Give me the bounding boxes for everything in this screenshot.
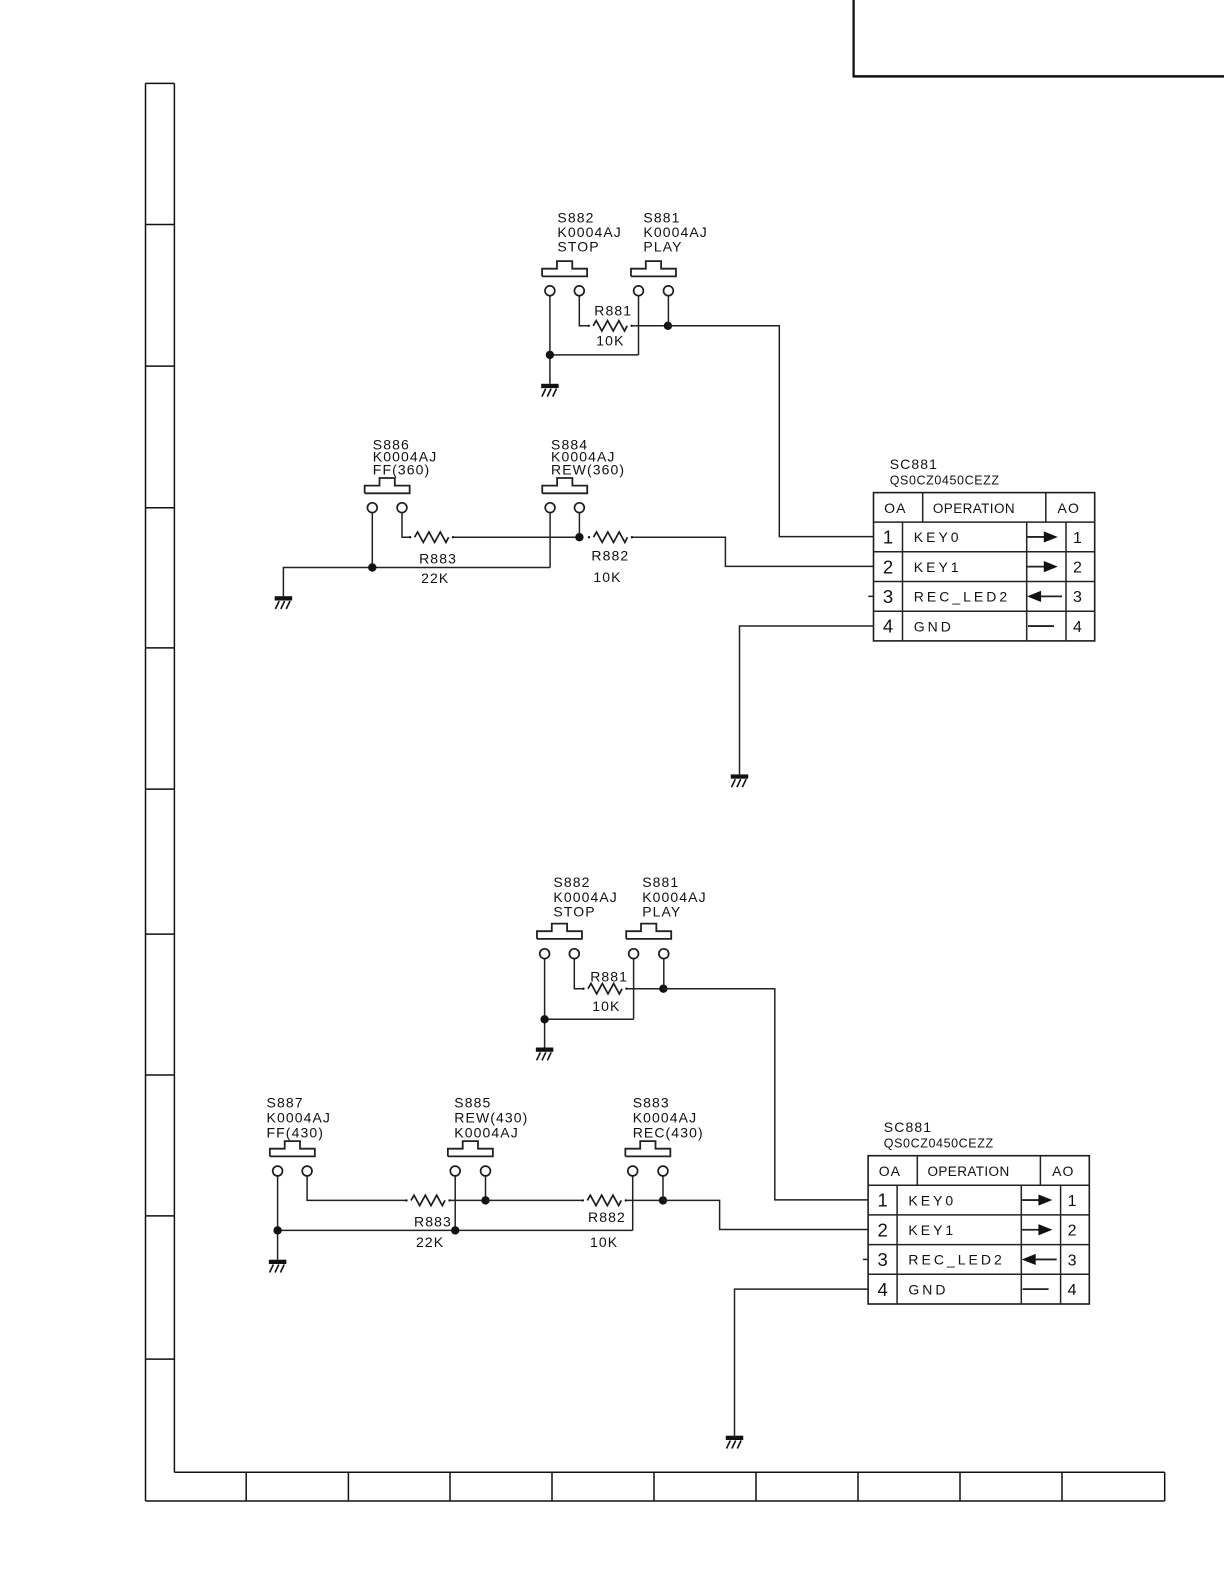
- resistor R881 10K: [588, 303, 633, 349]
- svg-text:S885: S885: [454, 1094, 491, 1110]
- svg-text:SC881: SC881: [884, 1119, 932, 1135]
- svg-text:1: 1: [1073, 530, 1082, 547]
- ground (below SC881 bottom): [726, 1436, 744, 1449]
- wire stub at SC881 pin 3 (REC_LED2): [868, 595, 873, 597]
- switch S886 terminal pins: [367, 503, 407, 513]
- connector SC881 (bottom) pin 2 row: KEY1: [877, 1219, 1076, 1240]
- resistor R882 10K (bottom): [582, 1195, 627, 1250]
- svg-text:K0004AJ: K0004AJ: [633, 1110, 698, 1126]
- page frame: bottom border right cap: [1164, 1472, 1166, 1501]
- connector SC881 (top) pin 2 row: KEY1: [883, 556, 1082, 577]
- svg-text:1: 1: [877, 1190, 887, 1211]
- page frame: left border tick marks: [146, 225, 175, 1360]
- svg-text:S882: S882: [553, 874, 590, 890]
- svg-text:REW(430): REW(430): [454, 1110, 528, 1126]
- svg-text:OPERATION: OPERATION: [928, 1164, 1010, 1179]
- svg-text:REW(360): REW(360): [551, 461, 625, 477]
- ground (below bottom S882): [536, 1048, 554, 1061]
- svg-text:STOP: STOP: [557, 239, 599, 255]
- svg-text:2: 2: [883, 556, 893, 577]
- page frame: bottom border tick marks: [246, 1472, 1062, 1501]
- wire: node D to R882 (bottom): [486, 1199, 583, 1201]
- wire: S882 left pin down to ground node: [549, 296, 551, 384]
- svg-text:GND: GND: [914, 618, 954, 634]
- svg-text:R883: R883: [419, 550, 457, 566]
- connector SC881 (bottom) pin 3 row: REC_LED2: [877, 1249, 1076, 1270]
- switch S886 label (S886 / K0004AJ / FF(360)): [373, 436, 438, 477]
- svg-text:2: 2: [1073, 559, 1082, 576]
- pushbutton switch S887 symbol: [270, 1141, 315, 1156]
- junction: S882 left / ground rail: [546, 351, 554, 359]
- svg-text:S881: S881: [642, 874, 679, 890]
- svg-text:10K: 10K: [592, 998, 620, 1014]
- junction node B: S884 right pin / R882 input: [575, 533, 583, 541]
- svg-text:2: 2: [1068, 1223, 1077, 1240]
- switch S883 label (S883 / K0004AJ / REC(430)): [633, 1094, 704, 1140]
- wire KEY1 net: R882 out to connector SC881 pin 2: [632, 537, 874, 566]
- wire: bottom common rail: [545, 1018, 634, 1020]
- resistor R882 10K: [588, 532, 633, 585]
- svg-text:4: 4: [877, 1279, 887, 1300]
- resistor R881 10K (bottom): [582, 969, 628, 1015]
- wire: S881 left pin down to common rail: [638, 296, 640, 355]
- wire: R883 to node B (S884 right pin): [453, 536, 579, 538]
- wire KEY0 net: node C to connector SC881 pin 1 (bottom): [663, 989, 868, 1200]
- connector SC881 (bottom) grid lines: [868, 1156, 1089, 1304]
- svg-text:QS0CZ0450CEZZ: QS0CZ0450CEZZ: [890, 474, 1000, 488]
- switch S881 label bottom (S881 / K0004AJ / PLAY): [642, 874, 707, 920]
- svg-text:REC(430): REC(430): [633, 1125, 704, 1141]
- connector SC881 (bottom) pin 1 row: KEY0: [877, 1190, 1076, 1211]
- resistor R883 22K: [409, 532, 457, 586]
- svg-text:R881: R881: [590, 969, 628, 985]
- svg-text:FF(360): FF(360): [373, 461, 431, 477]
- switch S884 terminal pins: [545, 503, 584, 513]
- svg-text:3: 3: [883, 586, 893, 607]
- ground (below SC881 top): [731, 774, 749, 787]
- svg-text:REC_LED2: REC_LED2: [914, 589, 1010, 605]
- switch S881 terminal pins: [634, 286, 674, 296]
- pushbutton switch S882 symbol (bottom): [537, 924, 582, 939]
- switch S882 terminal pins: [545, 286, 584, 296]
- svg-text:KEY1: KEY1: [908, 1222, 956, 1238]
- junction node C: bottom S881 right pin / KEY0 net: [659, 985, 667, 993]
- wire: bottom lower rail: [278, 1229, 633, 1231]
- svg-text:S887: S887: [267, 1094, 304, 1110]
- page frame: left border column inner line: [173, 83, 175, 1472]
- svg-text:4: 4: [1068, 1282, 1077, 1299]
- svg-text:2: 2: [877, 1219, 887, 1240]
- pushbutton switch S882 symbol: [542, 261, 587, 276]
- svg-text:10K: 10K: [596, 333, 624, 349]
- wire: lower rail to ground (left): [283, 568, 550, 597]
- svg-text:GND: GND: [908, 1281, 948, 1297]
- wire GND net: bottom SC881 pin 4 to ground: [735, 1289, 869, 1436]
- switch S884 label (S884 / K0004AJ / REW(360)): [551, 436, 625, 477]
- junction: S885 left pin on lower rail: [451, 1226, 459, 1234]
- junction node D: S885 right pin / R882 input (bottom): [481, 1196, 489, 1204]
- svg-text:1: 1: [1068, 1193, 1077, 1210]
- wire: R881 to node A (S881 right pin): [632, 325, 668, 327]
- svg-text:10K: 10K: [590, 1234, 618, 1250]
- pushbutton switch S881 symbol (bottom): [626, 924, 671, 939]
- switch S887 terminal pins: [273, 1166, 312, 1176]
- svg-text:K0004AJ: K0004AJ: [643, 224, 708, 240]
- svg-text:PLAY: PLAY: [643, 239, 682, 255]
- switch S881 terminal pins (bottom): [629, 949, 669, 959]
- wire: R883 out to node D (S885 right pin): [450, 1199, 486, 1201]
- switch S882 label (S882 / K0004AJ / STOP): [557, 210, 622, 255]
- connector SC881 (top) outline: [874, 493, 1095, 641]
- resistor R883 22K (bottom): [405, 1195, 452, 1250]
- pushbutton switch S886 symbol: [365, 478, 410, 493]
- svg-text:22K: 22K: [416, 1234, 444, 1250]
- wire: S884 right pin stub: [578, 513, 580, 538]
- page frame: left border column outer line: [145, 83, 147, 1501]
- wire: S886 right pin down to R883: [402, 513, 410, 538]
- wire: S887 left pin down to lower rail and ground: [277, 1176, 279, 1260]
- junction node E: S883 right pin / KEY1 net (bottom): [659, 1196, 667, 1204]
- svg-text:K0004AJ: K0004AJ: [267, 1110, 332, 1126]
- svg-text:R882: R882: [591, 548, 629, 564]
- wire: S883 right pin stub: [662, 1176, 664, 1201]
- svg-text:OA: OA: [884, 500, 906, 516]
- connector SC881 (top) pin 3 row: REC_LED2: [883, 586, 1082, 607]
- svg-text:KEY0: KEY0: [908, 1192, 956, 1208]
- pushbutton switch S884 symbol: [542, 478, 587, 493]
- wire stub at SC881 pin 3 (REC_LED2) bottom: [863, 1258, 868, 1260]
- wire: S886 left pin down to lower rail: [371, 513, 373, 568]
- wire: bottom S882 right pin down to R881: [574, 959, 583, 989]
- wire: bottom S881 left pin down to common rail: [633, 959, 635, 1020]
- svg-text:KEY1: KEY1: [914, 559, 962, 575]
- wire: S884 left pin down to lower rail: [549, 513, 551, 568]
- title block box (top right corner): [853, 0, 1224, 76]
- connector SC881 (top) pin 1 row: KEY0: [883, 527, 1082, 548]
- connector SC881 (top) header text OA / OPERATION / AO: [884, 500, 1080, 516]
- junction: S886 left pin on lower rail: [368, 563, 376, 571]
- wire: bottom R881 to node C (S881 right pin): [627, 988, 664, 990]
- switch S885 terminal pins: [450, 1166, 490, 1176]
- wire: S887 right pin down to R883 (bottom): [307, 1176, 406, 1201]
- switch S887 label (S887 / K0004AJ / FF(430)): [267, 1094, 332, 1140]
- svg-text:22K: 22K: [421, 570, 449, 586]
- connector SC881 (bottom) outline: [868, 1156, 1089, 1304]
- svg-text:KEY0: KEY0: [914, 529, 962, 545]
- wire: S885 left pin down to lower rail: [454, 1176, 456, 1231]
- pushbutton switch S885 symbol: [448, 1141, 493, 1156]
- svg-text:R881: R881: [594, 303, 632, 319]
- ground (below S887): [269, 1260, 287, 1273]
- svg-text:3: 3: [1068, 1252, 1077, 1269]
- junction: S887 left pin on lower rail: [273, 1226, 281, 1234]
- wire: S885 right pin stub: [485, 1176, 487, 1201]
- svg-text:1: 1: [883, 527, 893, 548]
- switch S882 terminal pins (bottom): [540, 949, 580, 959]
- wire KEY0 net: node A to connector SC881 pin 1: [668, 326, 874, 537]
- svg-text:R882: R882: [588, 1209, 626, 1225]
- svg-text:SC881: SC881: [890, 456, 938, 472]
- wire GND net: SC881 pin 4 to ground: [740, 626, 874, 774]
- connector SC881 reference label (top): [890, 456, 1000, 488]
- svg-text:R883: R883: [414, 1214, 452, 1230]
- wire: R882 out to node E (S883 right pin): [626, 1199, 663, 1201]
- svg-text:PLAY: PLAY: [642, 904, 681, 920]
- svg-text:AO: AO: [1052, 1163, 1074, 1179]
- connector SC881 reference label (bottom): [884, 1119, 994, 1150]
- ground (below S882): [541, 384, 559, 397]
- junction: bottom S882 left / ground rail: [540, 1015, 548, 1023]
- wire: S882 right pin down to R881: [579, 296, 588, 326]
- wire: bottom S881 right pin stub: [663, 959, 665, 989]
- svg-text:STOP: STOP: [553, 904, 595, 920]
- svg-text:10K: 10K: [593, 569, 621, 585]
- connector SC881 (top) pin 4 row: GND: [883, 616, 1082, 637]
- connector SC881 (bottom) header text OA / OPERATION / AO: [879, 1163, 1075, 1179]
- svg-text:4: 4: [883, 616, 893, 637]
- page frame: left border top cap: [146, 82, 175, 84]
- switch S885 label (S885 / REW(430) / K0004AJ): [454, 1094, 528, 1140]
- page frame: bottom border outer line: [146, 1500, 1165, 1502]
- svg-text:4: 4: [1073, 619, 1082, 636]
- svg-text:REC_LED2: REC_LED2: [908, 1252, 1004, 1268]
- svg-text:OA: OA: [879, 1163, 901, 1179]
- svg-text:3: 3: [1073, 589, 1082, 606]
- svg-text:FF(430): FF(430): [267, 1125, 325, 1141]
- svg-text:OPERATION: OPERATION: [933, 501, 1015, 516]
- pushbutton switch S883 symbol: [625, 1141, 670, 1156]
- connector SC881 (top) grid lines: [874, 493, 1095, 641]
- wire: common rail S882 left to S881 left: [550, 354, 639, 356]
- connector SC881 (bottom) pin 4 row: GND: [877, 1279, 1076, 1300]
- ground (left of S886 rail): [275, 596, 293, 609]
- junction node A: S881 right pin / KEY0 net: [664, 322, 672, 330]
- svg-text:AO: AO: [1058, 500, 1080, 516]
- wire KEY1 net: node E to connector SC881 pin 2 (bottom): [663, 1200, 868, 1229]
- switch S882 label bottom (S882 / K0004AJ / STOP): [553, 874, 618, 920]
- switch S883 terminal pins: [628, 1166, 668, 1176]
- svg-text:K0004AJ: K0004AJ: [454, 1125, 519, 1141]
- wire: bottom S882 left pin down to ground node: [544, 959, 546, 1048]
- svg-text:K0004AJ: K0004AJ: [557, 224, 622, 240]
- switch S881 label (S881 / K0004AJ / PLAY): [643, 210, 708, 255]
- svg-text:S883: S883: [633, 1094, 670, 1110]
- page frame: bottom border inner line: [174, 1471, 1164, 1473]
- svg-text:3: 3: [877, 1249, 887, 1270]
- wire: S881 right pin stub: [667, 296, 669, 326]
- pushbutton switch S881 symbol: [631, 261, 676, 276]
- svg-text:QS0CZ0450CEZZ: QS0CZ0450CEZZ: [884, 1137, 994, 1151]
- wire: S883 left pin down to lower rail end: [632, 1176, 634, 1231]
